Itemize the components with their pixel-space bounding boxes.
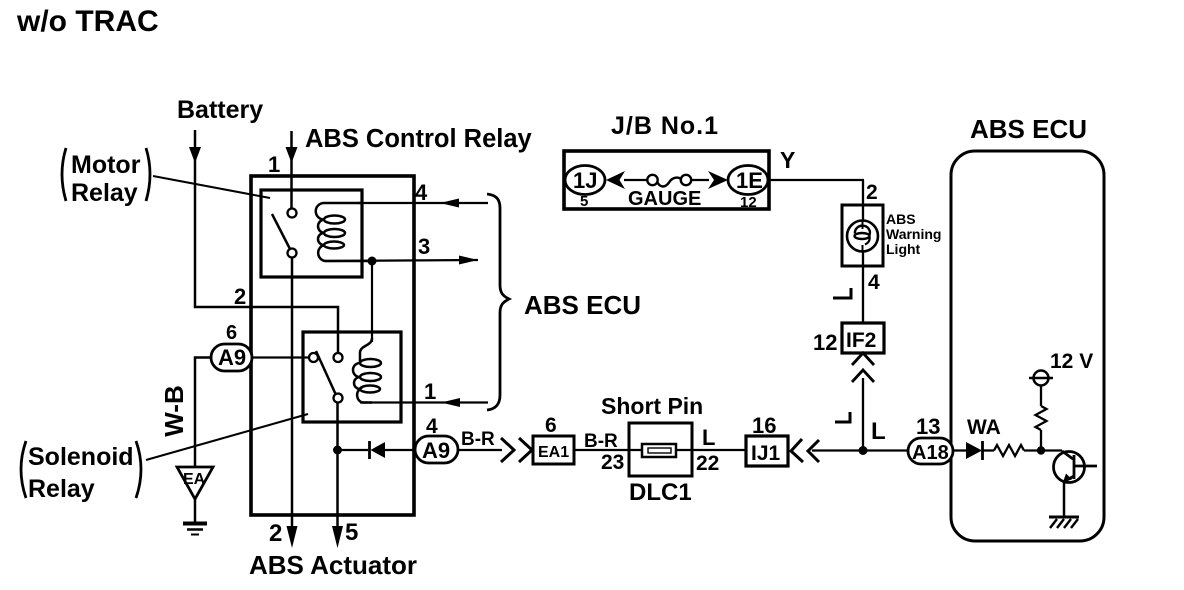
- solenoid switch blade: [316, 351, 336, 395]
- ground chassis: [1049, 517, 1079, 528]
- ground EA: [177, 467, 213, 535]
- svg-text:12 V: 12 V: [1050, 350, 1093, 373]
- arrow fuse right: [708, 171, 728, 189]
- svg-text:EA1: EA1: [538, 444, 569, 461]
- svg-text:12: 12: [813, 330, 837, 355]
- svg-text:1: 1: [424, 379, 436, 404]
- svg-text:ABS: ABS: [886, 211, 916, 227]
- motor relay coil L1: [316, 203, 372, 261]
- connector 1E: [728, 166, 768, 195]
- connector A9 pin4: [415, 436, 458, 463]
- solenoid relay coil L2: [353, 338, 381, 403]
- connector EA1: [533, 436, 574, 464]
- svg-text:Motor: Motor: [71, 151, 141, 179]
- svg-text:GAUGE: GAUGE: [628, 188, 701, 210]
- wire junction up: [1040, 430, 1042, 451]
- svg-text:1E: 1E: [736, 168, 763, 193]
- wire diode to A9: [385, 449, 416, 451]
- wire emitter down: [1063, 482, 1066, 517]
- arrow fuse left: [606, 171, 625, 189]
- connector chevrons male: [501, 438, 532, 462]
- node junction base: [1037, 446, 1045, 454]
- svg-text:A9: A9: [218, 345, 246, 370]
- svg-text:22: 22: [696, 452, 719, 475]
- svg-text:Warning: Warning: [886, 226, 941, 242]
- wire A18 to diode: [953, 449, 967, 451]
- svg-text:Relay: Relay: [28, 475, 95, 503]
- svg-text:A18: A18: [912, 442, 949, 464]
- resistor R2 vertical: [1036, 406, 1047, 430]
- svg-text:EA: EA: [183, 471, 206, 488]
- wire pin5 actuator: [336, 403, 339, 533]
- svg-text:6: 6: [226, 322, 237, 344]
- wire pin1: [290, 131, 293, 209]
- svg-text:3: 3: [418, 234, 430, 259]
- wire A9 to ground: [195, 358, 211, 468]
- svg-text:IJ1: IJ1: [751, 442, 781, 465]
- arrow wire4 left: [440, 199, 459, 208]
- svg-text:23: 23: [601, 451, 624, 474]
- node junction diode wire: [333, 446, 342, 455]
- wire to diode: [337, 449, 368, 451]
- arrow wire1 left: [441, 398, 460, 407]
- motor relay switch blade: [272, 214, 290, 249]
- svg-text:DLC1: DLC1: [629, 479, 692, 506]
- svg-text:IF2: IF2: [846, 329, 876, 352]
- wire Y from 1E: [767, 179, 864, 181]
- solenoid contact bottom: [334, 394, 343, 403]
- label ABS Warning Light: [886, 211, 941, 257]
- solenoid contact mid: [334, 353, 343, 362]
- connector A9 pin6: [211, 344, 252, 371]
- motor relay contact top: [288, 209, 297, 218]
- svg-text:Y: Y: [780, 147, 795, 173]
- wire pin6 into switch: [252, 356, 310, 358]
- svg-text:B-R: B-R: [584, 431, 618, 452]
- diode D2: [966, 441, 983, 460]
- connector IJ1: [746, 436, 788, 466]
- DLC1 box: [629, 423, 692, 476]
- wire color L rotated 2: [833, 288, 851, 298]
- wire fuse to arrow: [691, 179, 709, 181]
- svg-text:ABS ECU: ABS ECU: [970, 114, 1087, 144]
- svg-text:Light: Light: [886, 241, 921, 257]
- svg-text:Short Pin: Short Pin: [601, 393, 703, 419]
- junction block box: [564, 151, 769, 209]
- wire B-R: [458, 449, 502, 451]
- connector IF2: [842, 323, 884, 353]
- solenoid contact left: [309, 353, 318, 362]
- wire battery feed: [195, 130, 338, 353]
- short pin element: [642, 444, 676, 457]
- wire junction up to IF2: [862, 378, 864, 450]
- wire coil junction down to solenoid coil: [371, 261, 373, 342]
- wire IF2 up to warning light: [862, 180, 864, 323]
- wire pin2 actuator: [291, 258, 294, 533]
- wire pointer motor relay: [153, 176, 270, 198]
- svg-text:L: L: [871, 418, 886, 445]
- svg-text:13: 13: [916, 414, 940, 439]
- connector 1J: [565, 166, 605, 195]
- svg-text:ABS ECU: ABS ECU: [524, 290, 641, 320]
- svg-text:16: 16: [752, 413, 776, 438]
- bulb: [847, 221, 878, 252]
- svg-text:1: 1: [268, 152, 280, 177]
- svg-text:Relay: Relay: [71, 179, 138, 207]
- wire to fuse: [624, 179, 648, 181]
- ABS ECU box: [951, 151, 1104, 541]
- arrow battery down: [189, 147, 201, 163]
- svg-text:4: 4: [415, 180, 428, 205]
- wire EA1 to DLC1: [574, 449, 746, 451]
- wire 1 to ECU: [360, 401, 488, 403]
- svg-text:B-R: B-R: [461, 429, 495, 450]
- node junction coil/wire3: [368, 257, 377, 266]
- transistor Q1: [1054, 451, 1098, 483]
- terminal 12V: [1034, 371, 1049, 386]
- svg-text:ABS Actuator: ABS Actuator: [249, 550, 417, 580]
- wire color L rotated: [835, 412, 850, 422]
- svg-text:2: 2: [866, 181, 878, 204]
- svg-text:L: L: [702, 425, 715, 450]
- svg-text:A9: A9: [422, 438, 450, 463]
- motor relay contact bottom: [288, 249, 297, 258]
- wire to 12V: [1040, 386, 1042, 406]
- svg-text:1J: 1J: [573, 168, 597, 193]
- wire diode to resistor: [983, 449, 994, 451]
- svg-text:5: 5: [345, 519, 358, 546]
- node junction L wire: [859, 446, 868, 455]
- svg-text:w/o TRAC: w/o TRAC: [16, 5, 159, 38]
- wire 3 to ECU: [325, 260, 478, 261]
- connector chevrons female: [791, 439, 819, 462]
- solenoid relay box: [303, 332, 401, 422]
- diode D1: [370, 441, 386, 459]
- svg-text:Solenoid: Solenoid: [28, 443, 134, 471]
- svg-text:4: 4: [868, 271, 880, 294]
- emitter arrow: [1063, 474, 1072, 483]
- arrow wire3 right: [459, 256, 478, 265]
- svg-text:4: 4: [426, 415, 438, 438]
- svg-text:12: 12: [740, 194, 757, 211]
- ABS warning light box: [842, 205, 883, 266]
- svg-text:6: 6: [545, 414, 557, 437]
- wire 4 to ECU: [358, 202, 488, 204]
- resistor R1 horizontal: [994, 445, 1024, 456]
- svg-text:J/B No.1: J/B No.1: [611, 112, 719, 140]
- arrow pin1 down: [286, 147, 298, 163]
- svg-text:2: 2: [269, 520, 282, 547]
- brace ABS ECU: [487, 194, 509, 410]
- label (Motor Relay): [62, 148, 150, 207]
- arrow chevrons up to IF2: [852, 353, 874, 382]
- wire IJ1 to junction: [812, 449, 908, 451]
- svg-text:WA: WA: [967, 416, 1001, 439]
- svg-text:Battery: Battery: [177, 96, 263, 124]
- wire resistor to base: [1024, 449, 1062, 451]
- svg-text:2: 2: [234, 284, 246, 309]
- label (Solenoid Relay): [21, 441, 141, 503]
- relay assembly outer box: [251, 176, 414, 515]
- motor relay box: [261, 190, 362, 277]
- connector A18: [908, 438, 953, 464]
- arrow pin5 down: [332, 526, 343, 548]
- svg-text:ABS Control Relay: ABS Control Relay: [305, 125, 533, 153]
- fuse GAUGE: [647, 175, 691, 187]
- wire pointer solenoid relay: [146, 414, 308, 460]
- arrow pin2 down: [287, 526, 298, 548]
- svg-text:5: 5: [580, 193, 588, 210]
- svg-text:W-B: W-B: [159, 385, 189, 436]
